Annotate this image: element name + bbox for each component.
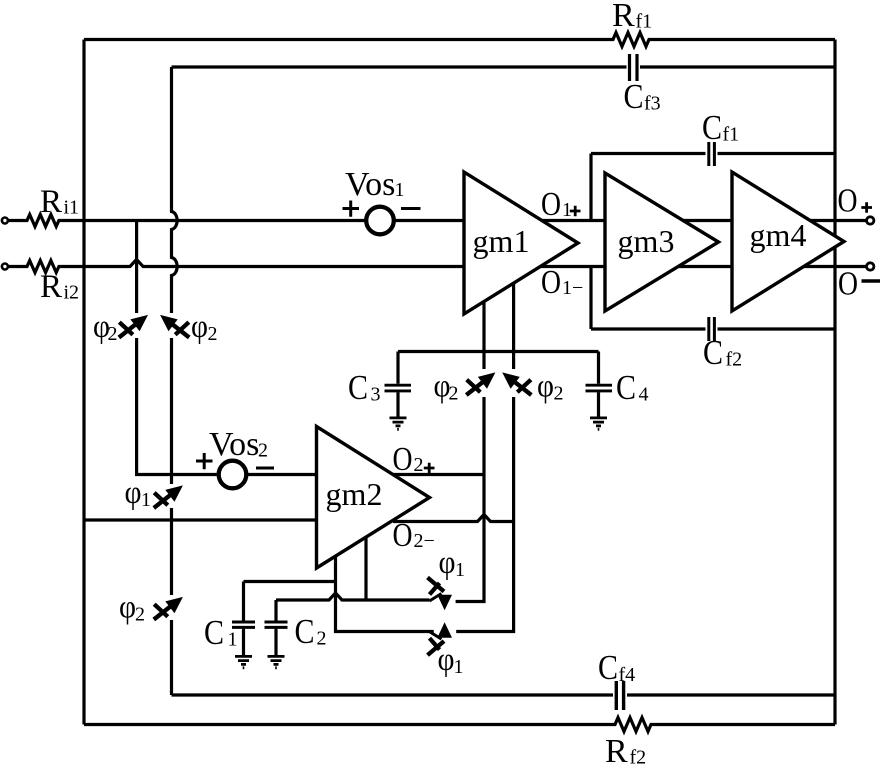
svg-text:C: C [348,368,368,407]
input terminal (bottom) [2,264,8,270]
svg-text:O: O [541,186,561,223]
svg-text:R: R [40,184,62,220]
svg-text:R: R [605,733,628,770]
svg-text:φ: φ [439,545,456,581]
output terminal O+ [867,217,874,224]
wire: outer left vertical (Rf1/Rf2 loop) [82,40,85,725]
wire: O2+ output of gm2 to x=484 vertical [392,473,484,476]
capacitor C3 to ground [396,352,399,417]
svg-text:C: C [598,648,618,687]
wire: vertical x=513.6 from phi2 switch to O2- node and lower phi1 corner [456,397,513,632]
svg-text:φ: φ [125,475,142,511]
wire: vertical x=484 from gm1 hypotenuse to phi2 switch [482,301,485,369]
switch phi2 (below gm1, left, arrow NE) [466,372,495,395]
resistor Ri1 + top input rail [8,215,866,227]
svg-text:C: C [702,108,722,147]
svg-text:f2: f2 [630,747,647,769]
wire: x=171.5 between phi2 switch and phi1 switch [170,338,173,484]
switch phi2 (upper-left pair, right, arrow NW) [160,315,189,338]
svg-text:C: C [616,368,636,407]
svg-text:1: 1 [395,179,405,201]
wire: O2- output of gm2 to x=513.6 vertical (hop over x=484) [393,515,514,522]
wire: Cf1 bracket vertical upper [589,154,592,221]
op-amp gm1 [464,172,578,314]
wire: C2 horizontal wire to upper phi1 switch (hop over x=335.5) [276,593,429,600]
resistor Rf2 (bottom feedback wire) [84,718,835,732]
svg-text:f1: f1 [723,124,740,146]
wire: vertical x=513.6 from gm1 hypotenuse to phi2 switch [512,283,515,369]
svg-text:R: R [40,269,62,305]
svg-text:C: C [204,613,224,652]
svg-text:1−: 1− [562,277,583,299]
capacitor Cf4 (bottom feedback wire) [172,693,836,696]
capacitor C4 to ground [597,352,600,417]
output terminal O- [867,263,874,270]
wire: C3-C4 horizontal wire [398,350,599,353]
svg-text:O: O [541,264,561,301]
svg-text:C: C [703,333,723,372]
wire: x=171.5 from lower phi2 switch to Cf4 corner [170,620,173,695]
svg-text:2: 2 [414,454,424,476]
svg-text:1: 1 [455,559,465,581]
op-amp gm4 [732,172,844,311]
capacitor C1 to ground [242,582,245,656]
label O1+ plus sign [570,206,581,216]
svg-text:R: R [612,0,635,34]
wire: Cf2 bracket vertical lower [589,267,592,330]
offset source Vos1 [366,207,394,235]
capacitor Cf2 (feedback over gm3/gm4 bottom) [591,327,835,330]
svg-text:Vos: Vos [345,166,395,203]
ground (C4) [590,418,607,429]
svg-text:2: 2 [258,440,268,462]
svg-text:4: 4 [639,384,649,406]
svg-text:2: 2 [135,604,145,626]
switch phi2 (lower-left, on x=171.5 vertical, arrow NE) [154,597,183,620]
svg-text:f3: f3 [644,93,661,115]
ground (C2) [268,656,285,667]
offset source Vos2 [219,461,247,489]
wire: gm2 lower hypotenuse tap x=366 down to C2 wire [364,538,367,600]
label O2+ plus sign [424,463,435,473]
svg-text:O: O [838,183,858,220]
svg-text:gm1: gm1 [473,223,530,259]
svg-text:f1: f1 [636,11,653,33]
svg-text:1: 1 [228,629,238,651]
svg-text:φ: φ [537,369,554,405]
resistor Ri2 + bottom input rail (hop over x=136.6 vertical) [8,260,866,273]
op-amp gm3 [605,173,719,311]
wire: x=171.5 between phi1 switch and lower phi2 switch [170,508,173,595]
switch phi1 (lower horizontal, arrow UP) [428,622,453,655]
svg-text:O: O [393,441,413,478]
svg-text:2: 2 [208,323,218,345]
svg-text:φ: φ [191,309,208,345]
wire: vertical x=484 from phi2 switch to O2+ node and phi1 corner [456,397,484,602]
wire: Vos2 to gm2 upper input [247,473,317,476]
svg-text:f2: f2 [726,349,743,371]
svg-text:gm2: gm2 [326,476,383,512]
switch phi2 (upper-left pair, left, arrow NE) [119,315,148,338]
svg-text:1: 1 [454,656,464,678]
svg-text:φ: φ [438,642,455,678]
wire: gm2 lower input wire from left vertical [84,518,317,521]
svg-text:C: C [624,77,644,116]
capacitor C2 to ground [274,600,277,655]
resistor Rf1 (top feedback wire) [84,33,835,47]
svg-text:1: 1 [141,489,151,511]
svg-text:i2: i2 [64,282,80,304]
Vos1 polarity marks + and - [343,201,421,217]
ground (C1) [235,656,252,667]
ground (C3) [390,418,407,429]
svg-text:gm4: gm4 [750,217,807,253]
input terminal (top) [2,218,8,224]
svg-text:O: O [838,266,858,303]
svg-text:f4: f4 [619,664,636,686]
svg-text:O: O [393,517,413,554]
wire: C1 horizontal wire [244,580,336,583]
label O- minus sign [862,279,881,282]
svg-text:C: C [295,612,315,651]
svg-text:φ: φ [119,590,136,626]
switch phi2 (below gm1, right, arrow NW) [502,372,531,395]
capacitor Cf1 (feedback over gm3/gm4 top) [591,152,835,155]
svg-text:Vos: Vos [209,426,259,463]
svg-text:2: 2 [108,323,118,345]
capacitor Cf3 (second feedback wire) [172,65,836,68]
svg-text:3: 3 [371,384,381,406]
svg-text:2: 2 [449,383,459,405]
wire: gm2 lower hypotenuse tap x=335.5 down to lower phi1 left wire [336,557,434,632]
svg-text:gm3: gm3 [618,223,675,259]
svg-text:2: 2 [317,628,327,650]
switch phi1 (upper horizontal, arrow DOWN) [428,578,453,611]
op-amp gm2 [317,427,430,569]
Vos2 polarity marks + and - [196,453,274,469]
switch phi1 (on x=171.5 vertical, arrow NE) [154,485,183,508]
label O+ plus sign [861,202,872,212]
wire: Cf3 vertical x=171.5 with crossover bumps at both rails [172,67,178,313]
wire: vertical from Ri1 node down to Vos2 corner (x=136.6) [135,221,138,314]
svg-text:2: 2 [554,383,564,405]
svg-text:i1: i1 [64,197,80,219]
wire: outer right vertical (output rail) [833,40,836,725]
svg-text:2−: 2− [414,530,435,552]
